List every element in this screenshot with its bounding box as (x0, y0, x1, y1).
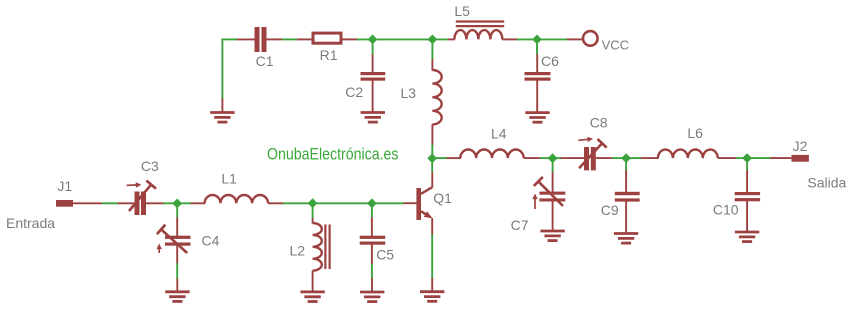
inductor L4 (447, 157, 461, 159)
trimmer capacitor C8 (561, 157, 585, 159)
power VCC (567, 38, 582, 40)
ground (C9) (614, 232, 638, 235)
wire (536, 39, 538, 54)
svg-text:L1: L1 (221, 170, 237, 186)
ground (C6) (525, 111, 549, 114)
trimmer capacitor C3 (118, 202, 136, 204)
svg-text:Salida: Salida (807, 175, 846, 191)
svg-text:L4: L4 (491, 126, 507, 142)
wire (283, 202, 313, 204)
capacitor C10 (746, 170, 748, 192)
wire (431, 39, 433, 59)
svg-text:C2: C2 (345, 84, 363, 100)
capacitor C1 (237, 38, 255, 40)
wire (373, 38, 433, 40)
ground (emitter) (431, 278, 433, 292)
ground (L2) (300, 290, 324, 293)
wire (176, 263, 178, 279)
wire (432, 157, 447, 159)
node (C10 junction) (742, 153, 752, 163)
svg-text:L3: L3 (401, 85, 417, 101)
inductor L2 (312, 218, 314, 224)
svg-text:L6: L6 (687, 125, 703, 141)
svg-text:C1: C1 (256, 53, 274, 69)
wire (746, 158, 748, 170)
svg-text:C8: C8 (590, 114, 608, 130)
wire (431, 158, 433, 173)
ground (C10) (735, 231, 759, 234)
wire (432, 38, 448, 40)
connector J1 (56, 200, 73, 207)
ground (C5) (371, 278, 373, 292)
node (C3/C4 junction) (172, 199, 182, 209)
svg-text:J2: J2 (793, 138, 808, 154)
svg-text:VCC: VCC (602, 38, 629, 53)
svg-text:R1: R1 (320, 47, 338, 63)
svg-text:L5: L5 (454, 3, 470, 19)
svg-text:C4: C4 (202, 233, 220, 249)
wire (747, 157, 770, 159)
node (R1/C2 junction) (368, 35, 378, 45)
wire (282, 38, 298, 40)
svg-text:L2: L2 (290, 243, 306, 259)
connector J2 (770, 157, 792, 159)
wire (553, 157, 562, 159)
svg-text:C6: C6 (541, 53, 559, 69)
wire (163, 202, 177, 204)
trimmer capacitor C7 (552, 172, 554, 192)
node (L3/L5 junction) (428, 35, 438, 45)
ground (C2) (361, 111, 385, 114)
wire (552, 158, 554, 172)
wire (372, 39, 374, 54)
svg-text:C5: C5 (376, 247, 394, 263)
inductor L3 (431, 59, 433, 71)
wire (221, 38, 223, 98)
capacitor C5 (371, 217, 373, 236)
wire (357, 38, 373, 40)
node (C5 junction) (367, 198, 377, 208)
wire (372, 202, 404, 204)
svg-text:C7: C7 (511, 217, 529, 233)
resistor R1 (297, 38, 312, 40)
svg-text:C3: C3 (141, 158, 159, 174)
wire (177, 202, 191, 204)
node (C9 junction) (621, 153, 631, 163)
wire (312, 203, 314, 218)
svg-text:C9: C9 (601, 202, 619, 218)
capacitor C2 (372, 54, 374, 72)
svg-text:Q1: Q1 (433, 190, 452, 206)
node (L2 junction) (308, 198, 318, 208)
inductor L5 (448, 38, 455, 40)
wire (176, 203, 178, 218)
inductor L1 (191, 202, 206, 204)
node (collector junction) (427, 153, 437, 163)
node (VCC feed junction) (532, 35, 542, 45)
ground (C7) (540, 230, 564, 233)
inductor L6 (641, 157, 659, 159)
wire (537, 38, 567, 40)
wire (313, 202, 372, 204)
wire (371, 264, 373, 279)
wire (431, 235, 433, 279)
svg-text:J1: J1 (57, 178, 72, 194)
transistor Q1 (431, 173, 433, 188)
wire (625, 158, 627, 170)
capacitor C6 (536, 54, 538, 72)
wire (736, 157, 747, 159)
wire (612, 157, 626, 159)
node (C7/C8 junction) (548, 153, 558, 163)
svg-text:C10: C10 (713, 202, 739, 218)
wire (540, 157, 553, 159)
ground (C4) (176, 279, 178, 293)
wire (371, 203, 373, 217)
capacitor C9 (625, 170, 627, 192)
ground (input coupling, top-left) (210, 111, 234, 114)
wire (626, 157, 641, 159)
trimmer capacitor C4 (176, 217, 178, 236)
wire (102, 202, 118, 204)
svg-text:Entrada: Entrada (6, 215, 55, 231)
wire (517, 38, 537, 40)
wire (431, 145, 433, 158)
svg-text:OnubaElectrónica.es: OnubaElectrónica.es (267, 145, 399, 163)
wire (222, 38, 237, 40)
